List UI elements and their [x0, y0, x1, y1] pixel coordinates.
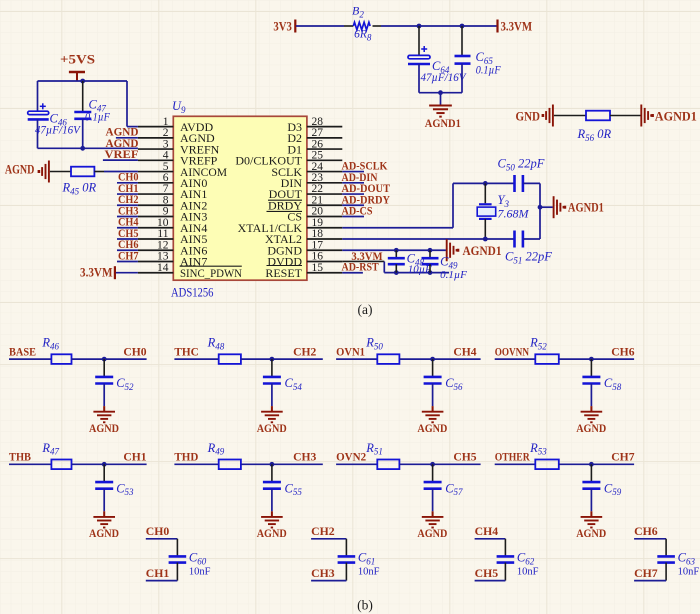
pin 6 AIN0 [138, 182, 173, 184]
ground AGND [581, 412, 603, 423]
ground AGND1 crystal [554, 196, 564, 218]
wire bottom [475, 580, 506, 582]
svg-text:AGND: AGND [89, 421, 119, 435]
wire bottom [634, 580, 666, 582]
svg-text:CH7: CH7 [634, 566, 658, 580]
junction C48 top/bottom [394, 248, 399, 253]
resistor R46 [51, 354, 71, 364]
svg-text:AGND: AGND [417, 421, 447, 435]
svg-text:CH6: CH6 [634, 524, 658, 538]
junction node C65 [460, 24, 465, 29]
svg-text:C50 22pF: C50 22pF [498, 157, 545, 173]
wire THC to R48 [174, 358, 218, 360]
pin 2 AGND [138, 137, 173, 139]
resistor R52 [535, 354, 559, 364]
wire OOVNN to R52 [495, 358, 536, 360]
wire pin1 to +5VS rail [127, 126, 138, 128]
net AD-SCLK [342, 171, 364, 173]
svg-text:CH1: CH1 [146, 566, 170, 580]
svg-text:+5VS: +5VS [60, 52, 95, 66]
resistor R48 [219, 354, 241, 364]
svg-text:AGND: AGND [576, 526, 606, 540]
svg-text:4: 4 [163, 150, 169, 162]
wire C56 to AGND [432, 384, 434, 407]
wire C59 to AGND [590, 489, 592, 512]
pin 25 D0/CLKOUT [307, 159, 342, 161]
svg-text:GND: GND [516, 109, 541, 123]
junction node filter [589, 462, 594, 467]
pin 27 D2 [307, 137, 342, 139]
ground AGND [581, 517, 603, 528]
pin 12 AIN6 [138, 249, 173, 251]
wire +5VS rail [38, 80, 128, 82]
pin 5 AINCOM [138, 171, 173, 173]
svg-text:7.68M: 7.68M [498, 207, 530, 221]
junction node C47 bottom [80, 146, 85, 151]
svg-text:23: 23 [312, 172, 324, 184]
wire C55 to AGND [271, 489, 273, 512]
svg-text:OOVNN: OOVNN [495, 345, 530, 359]
capacitor C59 [590, 464, 592, 481]
svg-text:OVN1: OVN1 [336, 345, 365, 359]
svg-text:22: 22 [312, 183, 324, 195]
ground AGND [261, 412, 283, 423]
capacitor C54 [271, 359, 273, 376]
wire cap bottoms join [419, 92, 462, 94]
net AD-DIN [342, 182, 364, 184]
svg-text:2: 2 [163, 127, 169, 139]
wire top [311, 538, 346, 540]
pin 3 VREFN [138, 148, 173, 150]
resistor R56 0R [586, 111, 610, 121]
capacitor C55 [271, 464, 273, 481]
capacitor C50 22pF [515, 175, 523, 192]
pin 10 AIN4 [138, 227, 173, 229]
svg-text:BASE: BASE [9, 345, 36, 359]
svg-text:RESET: RESET [265, 266, 302, 280]
svg-text:AD-CS: AD-CS [342, 204, 373, 218]
svg-text:10: 10 [157, 217, 169, 229]
capacitor C64 47uF/16V [418, 26, 420, 56]
wire bottom [146, 580, 178, 582]
pin 20 CS [307, 216, 342, 218]
wire B2 to 3.3VM port [373, 25, 382, 27]
svg-text:20: 20 [312, 206, 324, 218]
svg-text:15: 15 [312, 262, 324, 274]
svg-text:28: 28 [312, 116, 324, 128]
junction crystal bottom [483, 237, 488, 242]
net AGND pin2 [116, 137, 138, 139]
capacitor C63 10nF [665, 539, 667, 556]
capacitor C60 10nF [176, 539, 178, 556]
svg-text:AGND: AGND [5, 163, 35, 177]
svg-text:10nF: 10nF [189, 567, 211, 578]
svg-text:THB: THB [9, 450, 31, 464]
net VREF pin4 [103, 159, 138, 161]
svg-text:5: 5 [163, 161, 169, 173]
junction crystal top [483, 181, 488, 186]
svg-text:AGND: AGND [257, 421, 287, 435]
capacitor C51 22pF [515, 231, 523, 248]
wire R46 to CH [72, 358, 147, 360]
svg-text:ADS1256: ADS1256 [171, 285, 214, 299]
svg-text:1: 1 [163, 116, 169, 128]
ground AGND [93, 412, 115, 423]
svg-text:OTHER: OTHER [495, 450, 530, 464]
svg-text:10nF: 10nF [358, 567, 380, 578]
wire C53 to AGND [103, 489, 105, 512]
pin 17 DGND [307, 249, 342, 251]
svg-text:OVN2: OVN2 [336, 450, 366, 464]
capacitor C65 0.1uF [461, 26, 463, 55]
svg-text:AGND1: AGND1 [463, 244, 502, 258]
svg-text:CH3: CH3 [311, 566, 335, 580]
pin 24 SCLK [307, 171, 342, 173]
svg-text:16: 16 [312, 251, 324, 263]
svg-text:13: 13 [157, 251, 169, 263]
resistor R50 [377, 354, 399, 364]
svg-text:CH2: CH2 [311, 524, 335, 538]
junction node C47 top [80, 79, 85, 84]
junction right leg [538, 205, 543, 210]
pin 7 AIN1 [138, 193, 173, 195]
svg-text:7: 7 [163, 183, 169, 195]
pin 16 DVDD [307, 260, 342, 262]
capacitor C53 [103, 464, 105, 481]
wire DGND pin17 to AGND1 [342, 249, 446, 251]
resistor R53 [535, 460, 559, 470]
svg-text:25: 25 [312, 150, 324, 162]
net CH5 pin11 [117, 238, 138, 240]
wire R53 to CH [559, 463, 634, 465]
net CH3 pin9 [117, 216, 138, 218]
svg-text:14: 14 [157, 262, 169, 274]
wire GND to R56 [554, 115, 586, 117]
wire top [634, 538, 666, 540]
junction node C64 [417, 24, 422, 29]
svg-text:THC: THC [174, 345, 198, 359]
svg-text:AD-RST: AD-RST [342, 260, 379, 274]
svg-text:CH4: CH4 [453, 345, 476, 359]
ground AGND [422, 412, 444, 423]
wire OVN2 to R51 [336, 463, 377, 465]
wire cap bottom rail to pin3 [38, 147, 138, 149]
ground AGND [261, 517, 283, 528]
wire to AGND1 crystal [540, 206, 553, 208]
capacitor C56 [432, 359, 434, 376]
svg-text:9: 9 [163, 206, 169, 218]
svg-text:3V3: 3V3 [273, 19, 292, 33]
svg-text:C51 22pF: C51 22pF [505, 250, 552, 266]
pin 1 AVDD [138, 126, 173, 128]
capacitor C48 10uF [395, 250, 397, 257]
pin 28 D3 [307, 126, 342, 128]
svg-text:19: 19 [312, 217, 324, 229]
wire top [475, 538, 506, 540]
svg-text:3: 3 [163, 138, 169, 150]
svg-text:CH4: CH4 [475, 524, 499, 538]
capacitor C61 10nF [345, 539, 347, 556]
ground AGND [422, 517, 444, 528]
svg-text:R56 0R: R56 0R [577, 127, 612, 143]
pin 4 VREFP [138, 159, 173, 161]
resistor B2 6R8 [353, 22, 370, 29]
wire THB to R47 [9, 463, 51, 465]
svg-text:AGND: AGND [576, 421, 606, 435]
junction node filter [430, 357, 435, 362]
svg-text:0.1µF: 0.1µF [440, 269, 467, 281]
svg-text:AGND1: AGND1 [425, 116, 461, 130]
capacitor C58 [590, 359, 592, 376]
svg-text:27: 27 [312, 127, 324, 139]
pin 21 DRDY [307, 204, 342, 206]
junction node filter [589, 357, 594, 362]
pin 15 RESET [307, 272, 342, 274]
junction node filter [102, 357, 107, 362]
resistor R49 [219, 460, 241, 470]
svg-text:21: 21 [312, 194, 324, 206]
wire C58 to AGND [590, 384, 592, 407]
svg-text:12: 12 [157, 239, 169, 251]
svg-text:CH2: CH2 [293, 345, 316, 359]
wire BASE to R46 [9, 358, 51, 360]
wire OTHER to R53 [495, 463, 536, 465]
svg-text:AGND: AGND [257, 526, 287, 540]
svg-text:CH5: CH5 [453, 450, 476, 464]
ground AGND1 right [641, 105, 651, 127]
pin 8 AIN2 [138, 204, 173, 206]
wire top [146, 538, 178, 540]
svg-text:CH5: CH5 [475, 566, 499, 580]
svg-text:11: 11 [157, 228, 168, 240]
net CH4 pin10 [117, 227, 138, 229]
wire THD to R49 [174, 463, 218, 465]
junction node filter [270, 462, 275, 467]
svg-text:CH1: CH1 [123, 450, 146, 464]
svg-text:(b): (b) [357, 598, 373, 613]
svg-text:R45 0R: R45 0R [62, 181, 97, 197]
svg-text:47µF/16V: 47µF/16V [421, 72, 468, 84]
pin 11 AIN5 [138, 238, 173, 240]
net CH7 pin13 [117, 260, 138, 262]
net AD-DRDY [342, 204, 364, 206]
svg-text:6: 6 [163, 172, 169, 184]
pin 14 SINC_PDWN [138, 272, 173, 274]
net AD-DOUT [342, 193, 364, 195]
net CH0 pin6 [117, 182, 138, 184]
capacitor C52 [103, 359, 105, 376]
svg-text:47µF/16V: 47µF/16V [35, 124, 82, 136]
net AD-CS [342, 216, 364, 218]
svg-text:AGND: AGND [89, 526, 119, 540]
svg-text:3.3VM: 3.3VM [80, 265, 113, 279]
svg-text:SINC_PDWN: SINC_PDWN [180, 266, 242, 280]
capacitor C57 [432, 464, 434, 481]
net AD-RST pin15 [342, 272, 363, 274]
svg-text:AGND1: AGND1 [568, 201, 604, 215]
svg-text:VREF: VREF [105, 147, 139, 161]
pin 13 AIN7 [138, 260, 173, 262]
net CH2 pin8 [117, 204, 138, 206]
junction node filter [102, 462, 107, 467]
capacitor C47 0.1uF [82, 81, 84, 111]
junction node filter [270, 357, 275, 362]
resistor R45 0R [71, 167, 94, 177]
svg-text:(a): (a) [358, 302, 373, 317]
wire R51 to CH [399, 463, 480, 465]
pin 9 AIN3 [138, 216, 173, 218]
junction node filter [430, 462, 435, 467]
svg-text:CH0: CH0 [146, 524, 170, 538]
wire OVN1 to R50 [336, 358, 377, 360]
svg-text:CH0: CH0 [123, 345, 146, 359]
pin 18 XTAL2 [307, 238, 342, 240]
pin 23 DIN [307, 182, 342, 184]
port 3.3VM top [496, 20, 498, 33]
svg-text:0.1µF: 0.1µF [476, 64, 502, 76]
svg-text:0.1µF: 0.1µF [85, 112, 111, 124]
wire 3V3 to B2 [296, 25, 344, 27]
junction C49 top/bottom [428, 248, 433, 253]
capacitor C46 47uF/16V [40, 103, 46, 109]
capacitor C49 0.1uF [429, 250, 431, 257]
net CH1 pin7 [117, 193, 138, 195]
svg-text:THD: THD [174, 450, 198, 464]
wire R45 to pin5 [94, 171, 104, 173]
wire crystal right leg [539, 183, 541, 239]
svg-text:3.3VM: 3.3VM [501, 19, 533, 33]
svg-text:10nF: 10nF [517, 567, 539, 578]
wire R48 to CH [241, 358, 323, 360]
wire C54 to AGND [271, 384, 273, 407]
wire bottom [311, 580, 346, 582]
wire DVDD pin16 step down [342, 260, 384, 262]
op-amp U1 ADS1256 IC body U9 [173, 116, 307, 280]
svg-text:CH7: CH7 [118, 248, 139, 262]
pin 19 XTAL1/CLK [307, 227, 342, 229]
svg-text:26: 26 [312, 138, 324, 150]
ground AGND1 pin17 [447, 239, 457, 261]
wire XTAL2 pin18 to crystal bottom [342, 238, 513, 240]
svg-text:17: 17 [312, 239, 324, 251]
capacitor C62 10nF [504, 539, 506, 556]
pin name overline/underline marks [180, 200, 302, 266]
net CH6 pin12 [117, 249, 138, 251]
junction node ground stem [438, 90, 443, 95]
wire R50 to CH [399, 358, 480, 360]
wire R49 to CH [241, 463, 323, 465]
svg-text:24: 24 [312, 161, 324, 173]
crystal Y3 7.68M [484, 183, 486, 203]
wire XTAL1 pin19 to crystal [342, 227, 453, 229]
wire AGND to R45 [50, 171, 71, 173]
wire R56 to AGND1 [610, 115, 641, 117]
svg-text:AGND1: AGND1 [655, 109, 697, 123]
ground AGND [93, 517, 115, 528]
svg-text:18: 18 [312, 228, 324, 240]
resistor R51 [377, 460, 399, 470]
wire C57 to AGND [432, 489, 434, 512]
svg-text:CH6: CH6 [611, 345, 634, 359]
pin 26 D1 [307, 148, 342, 150]
svg-text:8: 8 [163, 194, 169, 206]
svg-text:CH3: CH3 [293, 450, 316, 464]
pin 22 DOUT [307, 193, 342, 195]
svg-text:10nF: 10nF [678, 567, 700, 578]
svg-text:AGND: AGND [417, 526, 447, 540]
svg-text:CH7: CH7 [611, 450, 634, 464]
resistor R47 [51, 460, 71, 470]
wire R47 to CH [72, 463, 147, 465]
ground AGND1 below C64 [429, 106, 452, 117]
wire R52 to CH [559, 358, 634, 360]
wire C52 to AGND [103, 384, 105, 407]
